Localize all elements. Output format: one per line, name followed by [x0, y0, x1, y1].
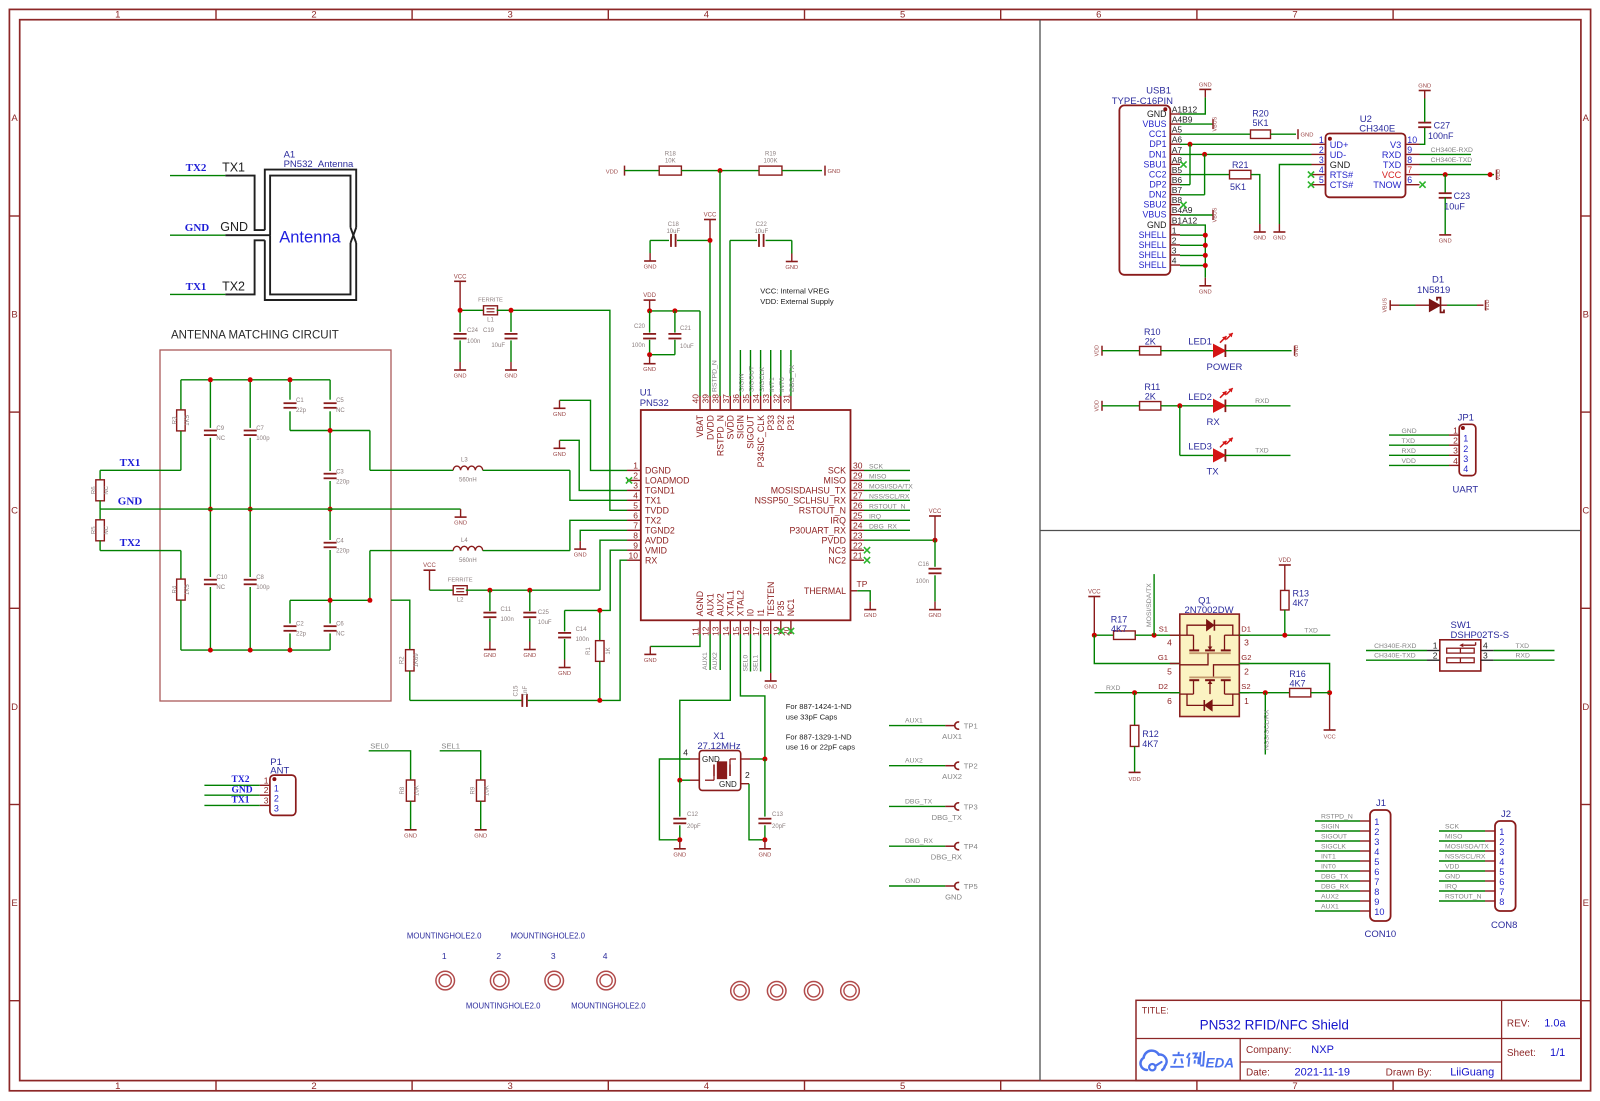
svg-text:UD-: UD-	[1330, 150, 1346, 160]
svg-text:40: 40	[691, 394, 701, 404]
svg-text:SEL1: SEL1	[752, 655, 759, 672]
svg-text:TP5: TP5	[964, 882, 978, 891]
svg-text:4: 4	[1374, 847, 1379, 857]
svg-text:PVDD: PVDD	[822, 535, 846, 545]
svg-text:DN2: DN2	[1149, 190, 1167, 200]
svg-text:GND: GND	[758, 852, 771, 858]
svg-text:DN1: DN1	[1149, 149, 1167, 159]
wire L3 to TX1 pin	[570, 470, 627, 500]
svg-text:4K7: 4K7	[1293, 598, 1309, 608]
svg-text:VDD: VDD	[1128, 777, 1140, 783]
mounting hole 7	[804, 982, 823, 1001]
ground above USB1 pin A1B12	[1180, 82, 1212, 114]
svg-text:37: 37	[721, 394, 731, 404]
svg-text:560nH: 560nH	[459, 478, 477, 484]
svg-text:SIGIN: SIGIN	[739, 373, 746, 392]
resistor R10	[1140, 327, 1161, 355]
svg-text:3: 3	[633, 481, 638, 491]
svg-text:GND: GND	[828, 169, 841, 175]
svg-text:100p: 100p	[256, 585, 270, 591]
svg-text:PN532 RFID/NFC Shield: PN532 RFID/NFC Shield	[1200, 1018, 1349, 1033]
svg-text:7: 7	[1374, 877, 1379, 887]
LED3 TX	[1180, 406, 1291, 478]
svg-text:GND: GND	[523, 653, 536, 659]
svg-text:VBUS: VBUS	[1383, 297, 1389, 312]
resistor R8	[400, 780, 420, 829]
svg-text:18: 18	[761, 626, 771, 636]
svg-text:GND: GND	[702, 755, 720, 764]
svg-text:C16: C16	[918, 562, 930, 568]
note crystal caps	[786, 702, 855, 752]
svg-text:VBAT: VBAT	[695, 414, 705, 437]
svg-text:C21: C21	[680, 326, 692, 332]
net stub CH340E-TXD	[1420, 157, 1473, 165]
svg-text:NC: NC	[336, 632, 345, 638]
svg-text:C4: C4	[336, 539, 344, 545]
svg-text:GND: GND	[764, 685, 777, 691]
ground from TESTEN pin18	[764, 634, 777, 691]
capacitor C15	[410, 685, 603, 707]
svg-text:CC2: CC2	[1149, 169, 1167, 179]
svg-text:VCC: VCC	[454, 274, 467, 280]
svg-text:C1: C1	[296, 398, 304, 404]
svg-text:MISO: MISO	[824, 476, 847, 486]
svg-text:D1: D1	[1241, 625, 1251, 634]
svg-text:6: 6	[1096, 1081, 1101, 1092]
U1 THERMAL pin TP	[804, 579, 877, 619]
svg-text:VCC: VCC	[1382, 170, 1402, 180]
svg-text:B1A12: B1A12	[1172, 215, 1198, 225]
svg-text:TX2: TX2	[645, 516, 661, 526]
svg-text:3: 3	[1374, 837, 1379, 847]
svg-text:8: 8	[633, 530, 638, 540]
resistor R16	[1289, 669, 1329, 697]
svg-text:VDD: VDD	[1485, 299, 1491, 310]
connector J2 CON8	[1439, 809, 1517, 931]
svg-text:R17: R17	[1111, 614, 1128, 624]
svg-text:B8: B8	[1172, 195, 1183, 205]
svg-text:TESTEN: TESTEN	[766, 582, 776, 617]
svg-text:GND: GND	[1147, 220, 1167, 230]
ferrite bead L2	[430, 578, 490, 604]
svg-text:NC: NC	[216, 585, 225, 591]
svg-text:GND: GND	[644, 265, 657, 271]
svg-text:3: 3	[264, 795, 269, 805]
svg-text:GND: GND	[553, 412, 566, 418]
svg-text:1: 1	[115, 10, 120, 21]
svg-text:2: 2	[1172, 235, 1177, 245]
wire top bus	[181, 379, 330, 381]
svg-text:GND: GND	[1418, 84, 1431, 90]
svg-text:32: 32	[771, 394, 781, 404]
svg-text:SEL0: SEL0	[742, 655, 749, 672]
capacitor C20	[632, 311, 656, 355]
svg-text:5: 5	[900, 10, 905, 21]
svg-text:9: 9	[633, 540, 638, 550]
ground below R21	[1251, 175, 1266, 242]
svg-text:NSS/SCL/RX: NSS/SCL/RX	[1445, 854, 1486, 861]
U1 right pins 30-21	[755, 461, 864, 566]
svg-text:DP1: DP1	[1149, 139, 1166, 149]
svg-text:C6: C6	[336, 622, 344, 628]
net port SEL1	[440, 741, 481, 780]
ground below C18 left	[644, 240, 657, 270]
resistor R9	[470, 780, 490, 829]
svg-text:VCC: Internal VREG: VCC: Internal VREG	[760, 287, 829, 296]
svg-text:3: 3	[1453, 446, 1458, 456]
svg-text:GND: GND	[483, 653, 496, 659]
svg-text:C8: C8	[256, 575, 264, 581]
diode D1 1N5819	[1383, 275, 1491, 313]
svg-text:VDD: External Supply: VDD: External Supply	[760, 297, 834, 306]
svg-text:I1: I1	[756, 609, 766, 616]
ground below R8	[404, 829, 417, 839]
svg-text:100n: 100n	[916, 579, 929, 585]
svg-text:LED1: LED1	[1188, 337, 1212, 348]
svg-text:RTS#: RTS#	[1330, 170, 1354, 180]
svg-text:11: 11	[691, 627, 701, 636]
matching circuit boundary box	[160, 350, 391, 701]
svg-text:38: 38	[711, 394, 721, 404]
svg-text:VDD: VDD	[1496, 169, 1502, 180]
svg-text:TXD: TXD	[1304, 627, 1318, 634]
svg-text:GND: GND	[905, 878, 920, 885]
capacitor C9	[204, 380, 226, 509]
svg-text:GND: GND	[1199, 82, 1212, 88]
svg-text:GND: GND	[644, 658, 657, 664]
svg-text:8: 8	[1407, 155, 1412, 165]
svg-text:10: 10	[1374, 907, 1384, 917]
svg-text:CH340E-TXD: CH340E-TXD	[1374, 653, 1416, 660]
svg-text:R19: R19	[765, 151, 777, 157]
svg-text:CTS#: CTS#	[1330, 180, 1354, 190]
svg-text:MOSISDAHSU_TX: MOSISDAHSU_TX	[771, 486, 846, 496]
svg-text:XTAL2: XTAL2	[736, 590, 746, 616]
test point TP5	[889, 878, 978, 902]
text mounting hole labels top	[407, 931, 586, 940]
svg-text:9: 9	[1407, 145, 1412, 155]
svg-text:4: 4	[603, 951, 608, 961]
resistor R6	[92, 470, 110, 509]
U1 right net stubs	[864, 463, 913, 530]
svg-text:INT0: INT0	[779, 377, 786, 392]
svg-text:1: 1	[1499, 827, 1504, 837]
svg-text:13: 13	[711, 626, 721, 636]
svg-text:SHELL: SHELL	[1139, 230, 1167, 240]
svg-text:TX2: TX2	[232, 775, 250, 785]
no-connect X TNOW	[1419, 182, 1425, 188]
svg-text:TX: TX	[1207, 467, 1220, 478]
test point TP2	[889, 758, 978, 782]
svg-text:L4: L4	[461, 538, 468, 544]
svg-text:100n: 100n	[576, 637, 589, 643]
svg-text:100n: 100n	[632, 343, 645, 349]
svg-text:RSTPD_N: RSTPD_N	[1321, 814, 1353, 821]
svg-text:P34SIC_CLK: P34SIC_CLK	[756, 415, 766, 467]
svg-text:2K: 2K	[1145, 336, 1156, 346]
svg-text:use 16 or 22pF caps: use 16 or 22pF caps	[786, 743, 855, 752]
svg-text:DP2: DP2	[1149, 179, 1166, 189]
svg-text:GND: GND	[553, 452, 566, 458]
svg-text:NC: NC	[104, 485, 110, 494]
resistor R12	[1130, 693, 1158, 773]
svg-text:C24: C24	[467, 328, 479, 334]
svg-text:RXD: RXD	[1106, 685, 1120, 692]
wire CC1 to R20	[1180, 133, 1251, 135]
svg-text:3: 3	[1172, 245, 1177, 255]
U1 bottom pins 11-20	[691, 582, 797, 636]
svg-text:AUX1: AUX1	[705, 593, 715, 616]
svg-text:IRQ: IRQ	[1445, 884, 1457, 891]
svg-text:VBUS: VBUS	[1143, 119, 1167, 129]
svg-text:2: 2	[496, 951, 501, 961]
svg-text:VCC: VCC	[1088, 590, 1101, 596]
ground symbol right of matching box	[454, 509, 467, 526]
wire CC2 to R21	[1180, 174, 1230, 176]
svg-text:UD+: UD+	[1330, 140, 1349, 150]
wire SW1 pin3 RXD	[1494, 653, 1555, 661]
svg-text:5K1: 5K1	[1252, 118, 1268, 128]
antenna A1 PN532_Antenna	[220, 149, 356, 300]
svg-text:C14: C14	[576, 627, 588, 633]
svg-text:AUX1: AUX1	[905, 718, 923, 725]
svg-text:TGND2: TGND2	[645, 526, 675, 536]
svg-text:4K7: 4K7	[1289, 678, 1305, 688]
SEL0 SEL1 net stubs	[742, 634, 760, 672]
svg-text:AUX2: AUX2	[905, 758, 923, 765]
svg-text:1: 1	[274, 784, 279, 794]
svg-text:7: 7	[1499, 887, 1504, 897]
svg-text:SHELL: SHELL	[1139, 260, 1167, 270]
svg-text:GND: GND	[1147, 109, 1167, 119]
svg-text:2: 2	[1499, 837, 1504, 847]
svg-text:3: 3	[508, 1081, 513, 1092]
svg-text:GND: GND	[220, 220, 248, 234]
LED1 POWER	[1161, 333, 1300, 373]
crystal X1 27.12MHz	[683, 731, 750, 790]
svg-text:Drawn By:: Drawn By:	[1386, 1068, 1432, 1079]
svg-text:3: 3	[551, 951, 556, 961]
net port SEL0	[369, 741, 411, 780]
title block	[1136, 1000, 1581, 1080]
capacitor C22	[730, 222, 792, 247]
svg-text:R2: R2	[399, 656, 405, 664]
svg-text:SHELL: SHELL	[1139, 250, 1167, 260]
svg-text:GND: GND	[1199, 289, 1212, 295]
connector J1 CON10	[1315, 798, 1396, 940]
svg-text:10uF: 10uF	[666, 229, 680, 235]
svg-text:GND: GND	[505, 374, 518, 380]
svg-text:1: 1	[1374, 817, 1379, 827]
svg-text:TP1: TP1	[964, 722, 978, 731]
svg-text:2: 2	[1244, 667, 1249, 677]
svg-text:AUX2: AUX2	[942, 772, 962, 781]
svg-text:5K1: 5K1	[1230, 182, 1246, 192]
svg-text:7: 7	[1292, 1081, 1297, 1092]
svg-text:TXD: TXD	[1402, 438, 1416, 445]
svg-text:D: D	[11, 702, 18, 713]
svg-text:A8: A8	[1172, 155, 1183, 165]
resistor R21	[1230, 160, 1251, 192]
svg-text:R9: R9	[470, 786, 476, 794]
svg-text:NC: NC	[104, 525, 110, 534]
svg-text:FERRITE: FERRITE	[478, 298, 503, 304]
mounting hole 6	[767, 982, 786, 1001]
svg-text:C19: C19	[483, 328, 495, 334]
ground below C11	[483, 642, 496, 660]
ground below C14	[558, 660, 571, 678]
test point TP3	[889, 798, 978, 822]
svg-text:24: 24	[853, 521, 863, 531]
svg-text:23: 23	[853, 530, 863, 540]
svg-text:JP1: JP1	[1458, 412, 1474, 423]
svg-text:B: B	[11, 309, 17, 320]
svg-text:MOSI/SDA/TX: MOSI/SDA/TX	[1146, 583, 1153, 627]
svg-text:1nF: 1nF	[523, 685, 529, 696]
svg-text:100n: 100n	[501, 617, 514, 623]
svg-text:J1: J1	[1376, 798, 1386, 809]
svg-text:GND: GND	[929, 613, 942, 619]
wire SVDD riser	[729, 240, 731, 396]
inductor L4	[370, 538, 570, 564]
svg-text:1K: 1K	[606, 647, 612, 654]
svg-text:10uF: 10uF	[680, 344, 694, 350]
svg-text:TGND1: TGND1	[645, 486, 675, 496]
svg-text:CH340E: CH340E	[1359, 124, 1395, 135]
text mounting hole labels bottom	[466, 1001, 646, 1010]
power flag VCC above C16	[929, 509, 942, 540]
svg-text:VDD: VDD	[1095, 400, 1101, 411]
svg-text:22p: 22p	[296, 632, 307, 638]
power flag VBUS pin A4B9	[1180, 116, 1219, 131]
wire DVDD riser	[708, 238, 713, 396]
svg-text:NC: NC	[216, 436, 225, 442]
svg-text:VCC: VCC	[929, 509, 942, 515]
svg-text:R12: R12	[1142, 729, 1159, 739]
svg-text:A1B12: A1B12	[1172, 105, 1198, 115]
svg-text:S2: S2	[1241, 682, 1250, 691]
junction dots matching circuit	[208, 377, 373, 652]
svg-text:GND: GND	[1253, 236, 1266, 242]
svg-text:SBU1: SBU1	[1144, 159, 1167, 169]
capacitor C12	[673, 780, 701, 840]
svg-text:C13: C13	[772, 812, 784, 818]
transistor Q1 2N7002DW	[1158, 595, 1252, 716]
capacitor C5	[324, 380, 346, 431]
svg-text:GND: GND	[118, 496, 143, 508]
svg-text:MOSI/SDA/TX: MOSI/SDA/TX	[1445, 844, 1489, 851]
note VCC VDD	[760, 287, 834, 307]
svg-text:1K69: 1K69	[414, 653, 420, 668]
svg-text:2021-11-19: 2021-11-19	[1295, 1067, 1350, 1079]
wire AVDD pin8 riser	[600, 540, 627, 590]
svg-text:2N7002DW: 2N7002DW	[1184, 605, 1233, 616]
svg-text:VBUS: VBUS	[1143, 210, 1167, 220]
svg-text:R3: R3	[173, 416, 179, 424]
LED2 RX	[1161, 388, 1291, 428]
svg-text:P31: P31	[786, 415, 796, 431]
svg-text:7: 7	[633, 521, 638, 531]
svg-text:USB1: USB1	[1146, 86, 1171, 97]
svg-text:31: 31	[781, 394, 791, 404]
svg-text:1.0a: 1.0a	[1544, 1018, 1566, 1030]
svg-text:GND: GND	[1273, 236, 1286, 242]
svg-text:DBG_TX: DBG_TX	[789, 364, 796, 392]
svg-text:MISO: MISO	[869, 473, 886, 480]
text ANTENNA MATCHING CIRCUIT	[171, 330, 339, 342]
svg-text:1: 1	[1172, 225, 1177, 235]
svg-text:220p: 220p	[336, 480, 350, 486]
svg-text:33: 33	[761, 394, 771, 404]
svg-text:GND: GND	[454, 374, 467, 380]
svg-text:R13: R13	[1293, 589, 1310, 599]
section divider lines	[1040, 20, 1581, 1081]
wire R17 to Q1 S1	[1092, 633, 1180, 638]
svg-text:MISO: MISO	[1445, 834, 1462, 841]
svg-text:J2: J2	[1501, 809, 1511, 820]
wire R18 to junction	[681, 168, 759, 173]
svg-text:6: 6	[1167, 696, 1172, 706]
capacitor C18	[650, 222, 710, 247]
svg-text:RSTOUT_N: RSTOUT_N	[869, 503, 906, 510]
svg-text:C12: C12	[687, 812, 699, 818]
svg-text:B7: B7	[1172, 185, 1183, 195]
svg-text:100nF: 100nF	[1428, 131, 1454, 141]
ground below C16	[929, 602, 942, 620]
no-connect X NC3 NC2	[864, 547, 870, 563]
svg-text:SCK: SCK	[1445, 824, 1459, 831]
capacitor C19	[483, 310, 518, 362]
svg-text:C2: C2	[296, 622, 304, 628]
svg-text:1: 1	[1433, 641, 1438, 651]
svg-text:TYPE-C16PIN: TYPE-C16PIN	[1112, 96, 1173, 107]
capacitor C14	[558, 610, 589, 659]
svg-text:GND: GND	[785, 265, 798, 271]
svg-text:DBG_TX: DBG_TX	[932, 813, 962, 822]
svg-text:2: 2	[745, 770, 750, 780]
svg-text:7: 7	[1292, 10, 1297, 21]
svg-text:3: 3	[1499, 847, 1504, 857]
svg-text:SIGOUT: SIGOUT	[1321, 834, 1347, 841]
net label TX1 wire	[170, 281, 225, 294]
U1 top gray net labels	[739, 350, 797, 396]
svg-text:EDA: EDA	[1206, 1055, 1235, 1070]
capacitor C23	[1439, 175, 1470, 235]
resistor R20	[1251, 109, 1271, 139]
svg-text:PN532_Antenna: PN532_Antenna	[284, 159, 354, 170]
capacitor C27	[1418, 99, 1454, 145]
svg-text:AGND: AGND	[695, 591, 705, 616]
svg-text:35: 35	[741, 394, 751, 404]
svg-text:22p: 22p	[296, 408, 307, 414]
svg-text:CON10: CON10	[1365, 929, 1397, 940]
svg-text:2: 2	[311, 1081, 316, 1092]
svg-text:NXP: NXP	[1311, 1044, 1334, 1056]
connector USB1 TYPE-C16PIN	[1112, 86, 1198, 275]
svg-text:GND: GND	[1439, 238, 1452, 244]
svg-text:INT1: INT1	[1321, 854, 1336, 861]
svg-text:10: 10	[1407, 135, 1417, 145]
svg-text:1: 1	[1244, 696, 1249, 706]
svg-text:30: 30	[853, 461, 863, 471]
wire DP2 up to DP1	[1180, 144, 1190, 184]
svg-text:NC2: NC2	[828, 555, 846, 565]
svg-text:C27: C27	[1434, 121, 1451, 131]
no-connect X pins 19 20	[778, 628, 794, 634]
svg-text:5: 5	[1499, 867, 1504, 877]
capacitor C3	[324, 431, 351, 510]
svg-text:C25: C25	[538, 610, 550, 616]
